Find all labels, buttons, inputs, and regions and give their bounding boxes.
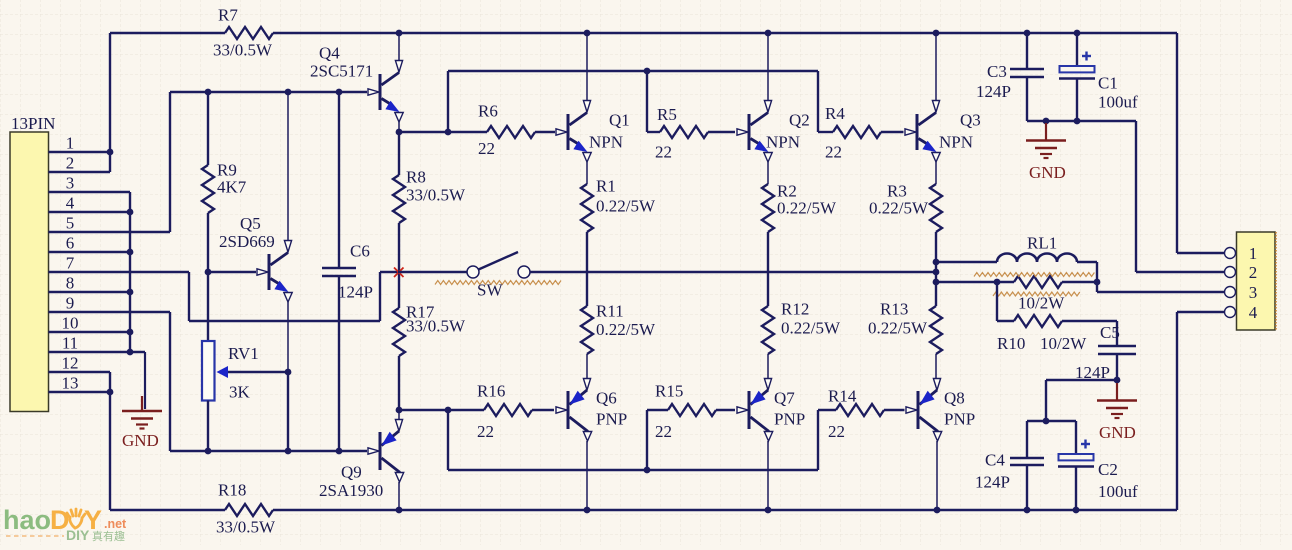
svg-text:124P: 124P bbox=[976, 82, 1011, 101]
svg-text:4: 4 bbox=[1249, 303, 1258, 322]
svg-text:Q2: Q2 bbox=[789, 111, 810, 130]
svg-text:C5: C5 bbox=[1100, 323, 1120, 342]
svg-text:2SC5171: 2SC5171 bbox=[310, 62, 373, 81]
svg-text:.net: .net bbox=[104, 517, 127, 531]
svg-text:100uf: 100uf bbox=[1098, 93, 1138, 112]
svg-text:Q5: Q5 bbox=[240, 214, 261, 233]
svg-text:NPN: NPN bbox=[939, 133, 973, 152]
svg-text:R11: R11 bbox=[596, 302, 624, 321]
svg-text:7: 7 bbox=[66, 254, 75, 273]
svg-text:3: 3 bbox=[1249, 283, 1258, 302]
svg-text:R14: R14 bbox=[828, 387, 857, 406]
svg-text:8: 8 bbox=[66, 274, 75, 293]
svg-text:Q7: Q7 bbox=[774, 389, 795, 408]
svg-text:C1: C1 bbox=[1098, 74, 1118, 93]
svg-text:10/2W: 10/2W bbox=[1018, 294, 1065, 313]
svg-text:hao: hao bbox=[3, 505, 51, 535]
svg-text:22: 22 bbox=[825, 143, 842, 162]
svg-text:R13: R13 bbox=[880, 300, 908, 319]
svg-text:100uf: 100uf bbox=[1098, 482, 1138, 501]
svg-text:C6: C6 bbox=[350, 242, 370, 261]
svg-text:1: 1 bbox=[1249, 244, 1258, 263]
svg-text:C3: C3 bbox=[987, 62, 1007, 81]
svg-text:C2: C2 bbox=[1098, 460, 1118, 479]
svg-text:2: 2 bbox=[66, 154, 75, 173]
svg-text:33/0.5W: 33/0.5W bbox=[406, 317, 466, 336]
svg-text:22: 22 bbox=[477, 422, 494, 441]
svg-text:13PIN: 13PIN bbox=[11, 114, 55, 133]
svg-text:R4: R4 bbox=[825, 104, 845, 123]
svg-text:GND: GND bbox=[1029, 163, 1066, 182]
svg-text:3K: 3K bbox=[229, 383, 251, 402]
svg-text:R10: R10 bbox=[997, 334, 1025, 353]
svg-text:R16: R16 bbox=[477, 382, 505, 401]
svg-text:Q9: Q9 bbox=[341, 463, 362, 482]
svg-text:Q3: Q3 bbox=[960, 111, 981, 130]
svg-text:R15: R15 bbox=[655, 382, 683, 401]
svg-text:Q1: Q1 bbox=[609, 111, 630, 130]
svg-text:0.22/5W: 0.22/5W bbox=[781, 319, 841, 338]
svg-text:0.22/5W: 0.22/5W bbox=[777, 199, 837, 218]
svg-text:124P: 124P bbox=[975, 473, 1010, 492]
svg-text:11: 11 bbox=[62, 334, 78, 353]
svg-text:NPN: NPN bbox=[589, 133, 623, 152]
svg-text:PNP: PNP bbox=[944, 410, 975, 429]
svg-text:DIY: DIY bbox=[66, 527, 90, 543]
svg-text:SW: SW bbox=[477, 281, 503, 300]
svg-text:Q6: Q6 bbox=[596, 389, 617, 408]
svg-text:2: 2 bbox=[1249, 263, 1258, 282]
svg-text:3: 3 bbox=[66, 174, 75, 193]
svg-text:10/2W: 10/2W bbox=[1040, 334, 1087, 353]
svg-text:R6: R6 bbox=[478, 102, 498, 121]
svg-text:10: 10 bbox=[62, 314, 79, 333]
svg-text:Q4: Q4 bbox=[319, 44, 340, 63]
svg-text:2SA1930: 2SA1930 bbox=[319, 481, 383, 500]
svg-text:22: 22 bbox=[828, 422, 845, 441]
svg-text:13: 13 bbox=[62, 374, 79, 393]
svg-text:4: 4 bbox=[66, 194, 75, 213]
svg-text:22: 22 bbox=[655, 422, 672, 441]
svg-text:0.22/5W: 0.22/5W bbox=[869, 199, 929, 218]
svg-text:GND: GND bbox=[122, 431, 159, 450]
svg-text:22: 22 bbox=[655, 143, 672, 162]
svg-text:9: 9 bbox=[66, 294, 75, 313]
svg-text:R1: R1 bbox=[596, 177, 616, 196]
svg-text:33/0.5W: 33/0.5W bbox=[213, 41, 273, 60]
svg-text:R7: R7 bbox=[218, 6, 238, 25]
svg-text:R18: R18 bbox=[218, 481, 246, 500]
svg-text:C4: C4 bbox=[985, 451, 1005, 470]
svg-text:4K7: 4K7 bbox=[217, 178, 247, 197]
svg-text:NPN: NPN bbox=[766, 133, 800, 152]
svg-text:R8: R8 bbox=[406, 168, 426, 187]
svg-text:R12: R12 bbox=[781, 300, 809, 319]
svg-text:RL1: RL1 bbox=[1027, 234, 1057, 253]
svg-text:RV1: RV1 bbox=[228, 344, 259, 363]
svg-text:0.22/5W: 0.22/5W bbox=[596, 320, 656, 339]
svg-text:6: 6 bbox=[66, 234, 75, 253]
svg-text:真有趣: 真有趣 bbox=[92, 529, 125, 543]
svg-text:PNP: PNP bbox=[774, 410, 805, 429]
svg-text:Q8: Q8 bbox=[944, 389, 965, 408]
svg-text:0.22/5W: 0.22/5W bbox=[596, 197, 656, 216]
svg-text:5: 5 bbox=[66, 214, 75, 233]
svg-text:33/0.5W: 33/0.5W bbox=[216, 518, 276, 537]
svg-text:12: 12 bbox=[62, 354, 79, 373]
svg-text:124P: 124P bbox=[338, 283, 373, 302]
svg-text:1: 1 bbox=[66, 134, 75, 153]
svg-text:0.22/5W: 0.22/5W bbox=[868, 319, 928, 338]
svg-text:R5: R5 bbox=[657, 105, 677, 124]
svg-text:33/0.5W: 33/0.5W bbox=[406, 186, 466, 205]
svg-text:GND: GND bbox=[1099, 423, 1136, 442]
svg-text:22: 22 bbox=[478, 139, 495, 158]
svg-text:2SD669: 2SD669 bbox=[219, 232, 275, 251]
svg-text:PNP: PNP bbox=[596, 410, 627, 429]
